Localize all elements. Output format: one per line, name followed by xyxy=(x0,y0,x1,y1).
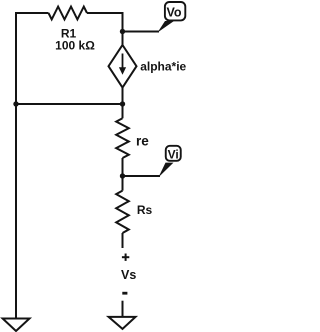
wire junction to Vi flag xyxy=(123,175,161,177)
wire middle junction down to resistor re xyxy=(122,104,124,118)
wire junction down to dependent source top xyxy=(122,32,124,46)
svg-text:100 kΩ: 100 kΩ xyxy=(55,39,95,53)
junction node dot middle left xyxy=(13,101,18,106)
wire re bottom to node Vi junction xyxy=(122,158,124,176)
node flag Vo xyxy=(158,2,186,33)
wire middle horizontal to left rail xyxy=(16,103,123,105)
plus sign of source Vs xyxy=(122,254,129,261)
wire from R1 to top-right corner down to node Vo junction xyxy=(87,13,123,32)
resistor re zigzag xyxy=(116,118,129,158)
junction node dot Vi xyxy=(120,173,125,178)
node flag Vi xyxy=(159,146,181,177)
resistor Rs zigzag xyxy=(116,191,129,233)
svg-text:alpha*ie: alpha*ie xyxy=(140,59,186,73)
wire Vs minus terminal down to ground xyxy=(122,301,124,317)
wire junction to Vo flag xyxy=(123,31,160,33)
svg-text:Vs: Vs xyxy=(121,268,136,282)
resistor R1 zigzag xyxy=(49,7,88,20)
svg-text:re: re xyxy=(136,133,149,148)
wire Rs bottom to source Vs plus terminal xyxy=(122,233,124,248)
minus sign of source Vs xyxy=(122,292,127,295)
svg-text:Vo: Vo xyxy=(166,5,181,19)
current source arrow xyxy=(119,54,126,75)
junction node dot Vo xyxy=(120,29,125,34)
junction node dot middle right xyxy=(120,101,125,106)
dependent current source I1 diamond xyxy=(109,45,137,88)
svg-text:Rs: Rs xyxy=(137,203,153,217)
wire left rail from top wire down to ground xyxy=(16,13,49,319)
wire junction down to resistor Rs xyxy=(122,176,124,191)
ground symbol bottom center xyxy=(109,317,136,329)
wire source bottom to middle junction xyxy=(122,88,124,105)
svg-text:Vi: Vi xyxy=(168,148,179,162)
ground symbol bottom left xyxy=(3,319,30,332)
